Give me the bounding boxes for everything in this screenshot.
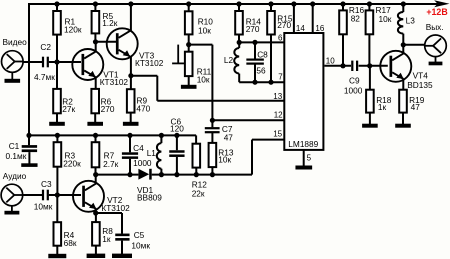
svg-text:C9: C9 [349, 75, 360, 85]
svg-text:10к: 10к [218, 155, 231, 165]
svg-text:+12В: +12В [426, 7, 447, 17]
svg-text:C4: C4 [133, 143, 144, 153]
svg-text:C8: C8 [257, 50, 268, 60]
svg-text:7: 7 [278, 73, 283, 82]
svg-text:47: 47 [224, 132, 234, 142]
svg-text:C1: C1 [9, 141, 20, 151]
svg-text:6: 6 [278, 34, 283, 43]
svg-text:22к: 22к [192, 188, 205, 198]
svg-text:15: 15 [273, 130, 282, 139]
svg-text:10к: 10к [379, 14, 392, 24]
svg-text:Видео: Видео [3, 37, 28, 47]
svg-text:10мк: 10мк [34, 202, 53, 212]
svg-text:C5: C5 [134, 230, 145, 240]
svg-text:1к: 1к [102, 234, 111, 244]
svg-text:120: 120 [170, 124, 184, 134]
svg-text:C3: C3 [41, 179, 52, 189]
svg-text:5: 5 [307, 153, 312, 162]
svg-text:1к: 1к [378, 102, 387, 112]
svg-text:10мк: 10мк [131, 241, 150, 251]
svg-text:68к: 68к [64, 238, 77, 248]
svg-text:L3: L3 [406, 16, 416, 26]
svg-text:270: 270 [246, 24, 260, 34]
svg-text:КТ3102: КТ3102 [100, 77, 129, 87]
svg-text:Аудио: Аудио [3, 171, 27, 181]
svg-text:КТ3102: КТ3102 [101, 203, 130, 213]
svg-text:10к: 10к [198, 25, 211, 35]
svg-text:C2: C2 [40, 42, 51, 52]
svg-text:4.7мк: 4.7мк [34, 72, 55, 82]
svg-text:КТ3102: КТ3102 [135, 58, 164, 68]
svg-text:1000: 1000 [133, 158, 152, 168]
svg-text:27к: 27к [62, 104, 75, 114]
svg-text:10к: 10к [197, 74, 210, 84]
svg-text:L1: L1 [147, 148, 157, 158]
svg-text:ВВ809: ВВ809 [137, 192, 162, 202]
svg-text:220к: 220к [63, 159, 81, 169]
svg-text:16: 16 [315, 24, 324, 33]
svg-text:270: 270 [101, 104, 115, 114]
svg-text:L2: L2 [224, 55, 234, 65]
svg-text:BD135: BD135 [407, 80, 433, 90]
svg-text:47: 47 [411, 102, 421, 112]
svg-text:14: 14 [296, 24, 305, 33]
svg-text:1000: 1000 [344, 86, 363, 96]
svg-text:12: 12 [274, 111, 283, 120]
svg-text:56: 56 [256, 66, 266, 76]
svg-text:470: 470 [136, 103, 150, 113]
svg-text:0.1мк: 0.1мк [6, 151, 27, 161]
svg-text:82: 82 [351, 13, 361, 23]
svg-text:10: 10 [326, 57, 335, 66]
svg-text:VT4: VT4 [413, 70, 429, 80]
svg-text:13: 13 [273, 92, 282, 101]
svg-text:120к: 120к [64, 25, 82, 35]
svg-text:1.2к: 1.2к [102, 18, 118, 28]
svg-text:2.7к: 2.7к [103, 159, 119, 169]
svg-text:270: 270 [277, 20, 291, 30]
svg-text:Вых.: Вых. [426, 22, 444, 32]
svg-text:LM1889: LM1889 [288, 139, 318, 149]
